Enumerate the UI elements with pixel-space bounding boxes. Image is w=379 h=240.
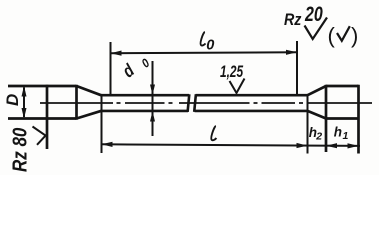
svg-text:h: h bbox=[334, 125, 342, 140]
svg-text:Rz: Rz bbox=[284, 11, 302, 29]
dimension d0 arrows bbox=[150, 85, 155, 122]
specimen left head outline bbox=[8, 85, 77, 149]
right cone (fillet transition) bbox=[308, 86, 327, 119]
dimension l arrows bbox=[102, 142, 308, 148]
svg-text:0: 0 bbox=[206, 38, 214, 54]
label l0 bbox=[201, 32, 215, 54]
svg-text:): ) bbox=[351, 23, 358, 48]
svg-text:1,25: 1,25 bbox=[220, 63, 244, 82]
dimension l0 extension lines bbox=[111, 41, 298, 95]
dimension D extension+line bbox=[23, 88, 25, 118]
label l bbox=[211, 126, 216, 140]
dimension D arrows bbox=[22, 86, 27, 119]
label h2 bbox=[309, 125, 323, 143]
svg-text:2: 2 bbox=[315, 131, 322, 143]
corner mark Rz 20 tick bbox=[305, 18, 328, 40]
svg-text:(: ( bbox=[328, 23, 336, 48]
svg-text:Rz 80: Rz 80 bbox=[8, 127, 31, 172]
roughness 1,25 label bbox=[220, 63, 244, 82]
specimen right head outline bbox=[326, 85, 359, 154]
roughness Rz 80 label bbox=[8, 127, 31, 172]
roughness Rz 80 tick bbox=[33, 127, 46, 145]
bottom dimension line l / h2 / h1 bbox=[102, 144, 361, 146]
corner mark parentheses with tick bbox=[328, 23, 359, 48]
label D bbox=[3, 94, 22, 106]
rod gauge section left piece bbox=[101, 94, 189, 112]
dimension l0 arrows bbox=[111, 50, 298, 56]
dimension d0 line bbox=[152, 61, 154, 136]
label d0 bbox=[119, 56, 153, 82]
svg-text:20: 20 bbox=[304, 2, 323, 26]
centerline (axis of symmetry, dash-dot) bbox=[40, 102, 372, 104]
dimension l0 line bbox=[111, 51, 298, 54]
rod gauge section right piece bbox=[194, 94, 307, 112]
label h1 bbox=[334, 125, 349, 143]
dimension h1 arrows bbox=[326, 143, 359, 148]
svg-text:D: D bbox=[3, 94, 22, 106]
bottom dimension extension lines bbox=[102, 95, 308, 153]
svg-text:1: 1 bbox=[343, 130, 349, 142]
left cone (fillet transition) bbox=[77, 86, 102, 119]
roughness 1,25 tick bbox=[230, 79, 245, 94]
corner mark Rz 20 text bbox=[284, 2, 323, 30]
